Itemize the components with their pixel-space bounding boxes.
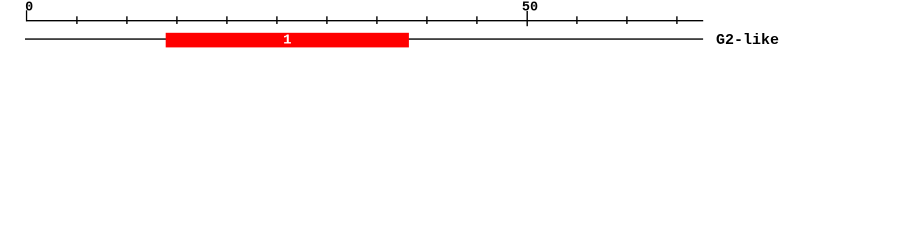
svg-text:0: 0 xyxy=(25,0,33,15)
tick minor x=477 xyxy=(476,16,478,24)
tick minor x=577 xyxy=(576,16,578,24)
motif box 1 xyxy=(166,33,409,48)
tick minor x=177 xyxy=(176,16,178,24)
tick minor x=377 xyxy=(376,16,378,24)
tick minor x=277 xyxy=(276,16,278,24)
svg-text:1: 1 xyxy=(283,32,291,48)
tick major x=527 (label 50) xyxy=(526,11,528,26)
background xyxy=(0,0,900,58)
svg-text:50: 50 xyxy=(522,0,538,15)
svg-text:G2-like: G2-like xyxy=(716,32,779,49)
tick minor x=77 xyxy=(76,16,78,24)
tick minor x=677 xyxy=(676,16,678,24)
tick minor x=327 xyxy=(326,16,328,24)
tick minor x=427 xyxy=(426,16,428,24)
sequence line xyxy=(25,38,703,40)
tick minor x=627 xyxy=(626,16,628,24)
ruler line xyxy=(26,20,703,22)
tick minor x=127 xyxy=(126,16,128,24)
tick 0 xyxy=(26,10,28,21)
tick minor x=227 xyxy=(226,16,228,24)
